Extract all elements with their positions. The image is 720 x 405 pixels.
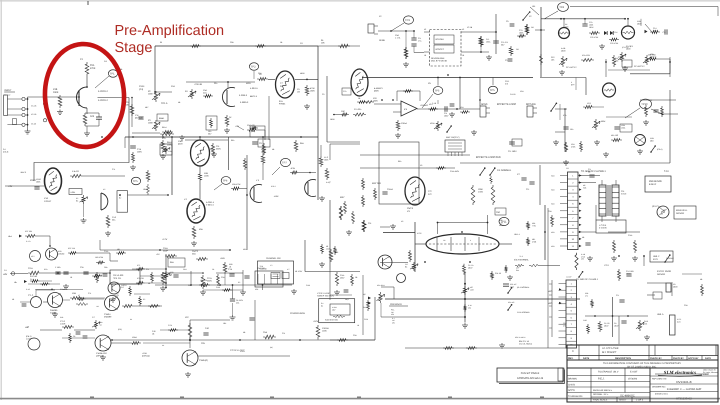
svg-text:X2: X2: [238, 281, 240, 284]
svg-text:BM41: BM41: [159, 117, 165, 120]
svg-text:DV13101-B: DV13101-B: [676, 380, 691, 384]
svg-text:CHANNEL SW: CHANNEL SW: [266, 257, 281, 260]
svg-text:P.E.J.: P.E.J.: [598, 378, 605, 381]
svg-text:07/30/96: 07/30/96: [628, 378, 638, 381]
svg-text:REV.: REV.: [568, 357, 574, 360]
svg-text:C/4A: C/4A: [104, 250, 109, 253]
svg-text:4-OOI1.2: 4-OOI1.2: [98, 99, 109, 102]
svg-text:1M: 1M: [297, 91, 300, 94]
svg-text:4-7: 4-7: [287, 268, 290, 271]
svg-text:V3.1B: V3.1B: [31, 123, 37, 126]
svg-text:((W/C4)): ((W/C4)): [142, 355, 150, 358]
svg-text:SEND: SEND: [379, 39, 385, 42]
svg-text:AMC SW(C/L*): AMC SW(C/L*): [446, 136, 460, 139]
svg-text:8CA26A: 8CA26A: [436, 38, 445, 41]
svg-text:100K: 100K: [519, 32, 524, 35]
svg-text:B4: B4: [76, 199, 78, 202]
svg-text:U2E4: U2E4: [71, 191, 76, 194]
svg-text:+10A: +10A: [142, 352, 147, 355]
svg-text:C5P: C5P: [496, 211, 501, 214]
svg-text:REVERB PAN: REVERB PAN: [431, 57, 445, 60]
svg-text:Pre-Amplification: Pre-Amplification: [115, 23, 225, 39]
svg-text:+12V: +12V: [114, 294, 120, 297]
svg-text:100V: 100V: [444, 115, 449, 118]
svg-text:45A 15P: 45A 15P: [611, 134, 619, 137]
svg-text:(P4.1): (P4.1): [26, 335, 32, 338]
svg-text:C*4: C*4: [88, 292, 91, 295]
svg-text:C/L: C/L: [616, 294, 619, 297]
svg-text:1M: 1M: [531, 26, 534, 29]
svg-text:EFFECTS LOOP PAD: EFFECTS LOOP PAD: [476, 156, 501, 159]
svg-text:4-00I1.5: 4-00I1.5: [250, 87, 258, 90]
svg-text:TP1.5: TP1.5: [161, 102, 168, 105]
svg-text:40A: 40A: [199, 228, 203, 231]
svg-text:VC-1B: VC-1B: [31, 105, 37, 108]
svg-text:C3A04: C3A04: [104, 313, 111, 316]
svg-text:TO J608 OF CH-PWR-1: TO J608 OF CH-PWR-1: [581, 170, 606, 173]
svg-text:C5: C5: [322, 93, 324, 96]
svg-text:B2: B2: [119, 196, 121, 199]
svg-text:CHK'D BY: CHK'D BY: [673, 357, 684, 360]
svg-text:A-00I1.4: A-00I1.4: [206, 201, 215, 204]
svg-text:(MODEL NO.): (MODEL NO.): [655, 393, 668, 396]
svg-text:X50 1A 400*4: X50 1A 400*4: [515, 336, 525, 339]
svg-text:INPUT: INPUT: [4, 89, 12, 92]
svg-text:1B0V: 1B0V: [373, 100, 379, 103]
svg-text:C/4 1B: C/4 1B: [510, 93, 516, 96]
svg-text:4B1: 4B1: [117, 248, 120, 251]
svg-text:TP6: TP6: [223, 180, 228, 183]
svg-text:+8V: +8V: [3, 273, 8, 276]
svg-text:T-10: T-10: [664, 170, 669, 173]
svg-text:C3A04(2): C3A04(2): [199, 359, 208, 362]
svg-text:07A: 07A: [279, 100, 283, 103]
svg-text:U.S.A.: U.S.A.: [703, 373, 709, 376]
svg-text:TP5: TP5: [490, 89, 495, 92]
svg-text:*/C4 C/L: */C4 C/L: [113, 277, 122, 280]
svg-text:BY ST. JAMES AUDIO, INC.: BY ST. JAMES AUDIO, INC.: [627, 365, 657, 368]
svg-text:X5A 45A4: X5A 45A4: [377, 284, 385, 287]
svg-text:UML 2: UML 2: [653, 255, 660, 258]
svg-text:DATE: DATE: [583, 357, 590, 360]
svg-text:SLM electronics: SLM electronics: [664, 370, 697, 376]
svg-text:100K: 100K: [36, 181, 41, 184]
svg-text:X3 1B: X3 1B: [467, 26, 473, 29]
svg-text:4-00I*: 4-00I*: [274, 195, 279, 198]
svg-text:4B 1C0V: 4B 1C0V: [295, 270, 303, 273]
svg-text:P04: P04: [516, 269, 519, 272]
svg-text:THIS INFORMATION CONTAINED OF: THIS INFORMATION CONTAINED OF THIS DRAWI…: [603, 362, 681, 365]
svg-text:2N5089: 2N5089: [50, 309, 58, 312]
svg-text:B4: B4: [321, 304, 323, 307]
svg-text:C8: C8: [73, 335, 75, 338]
svg-text:470: 470: [585, 294, 588, 297]
svg-text:8CNTET: 8CNTET: [436, 48, 445, 51]
svg-text:TP2: TP2: [251, 66, 256, 69]
svg-text:4 A(C: 4 A(C: [326, 181, 331, 184]
svg-text:TP1: TP1: [110, 73, 115, 76]
svg-text:X07 1B4: X07 1B4: [25, 230, 32, 233]
svg-text:8.5E.P: 8.5E.P: [649, 183, 657, 186]
svg-text:FINAL SCALE: FINAL SCALE: [593, 399, 608, 402]
svg-text:CHECK BY: CHECK BY: [650, 357, 662, 360]
svg-text:P04 1B: P04 1B: [495, 272, 502, 275]
svg-text:C/4: C/4: [282, 332, 285, 335]
svg-text:1B41-4: 1B41-4: [514, 233, 520, 236]
svg-text:+84V: +84V: [220, 257, 226, 260]
svg-text:FUN SIT PDALE: FUN SIT PDALE: [521, 372, 540, 375]
svg-text:+8P: +8P: [25, 326, 30, 329]
svg-text:05A4: 05A4: [162, 126, 166, 129]
svg-text:SHEET: SHEET: [619, 399, 627, 402]
svg-text:V1A: V1A: [44, 197, 49, 200]
svg-text:1.5TV: 1.5TV: [26, 338, 32, 341]
svg-text:(C3.2): (C3.2): [3, 151, 9, 154]
svg-text:C/4A: C/4A: [178, 140, 183, 143]
svg-text:4-OOI1.2: 4-OOI1.2: [98, 90, 109, 93]
svg-text:150A: 150A: [486, 41, 491, 44]
svg-text:4B7: 4B7: [145, 106, 148, 109]
svg-text:C5A: C5A: [263, 331, 268, 334]
svg-text:J1 C/3*: J1 C/3*: [566, 276, 572, 279]
svg-text:EXTRY SNGR: EXTRY SNGR: [657, 270, 672, 273]
svg-text:C3A04 A/52: C3A04 A/52: [96, 352, 108, 355]
svg-text:0.5: 0.5: [103, 188, 105, 191]
svg-text:C5/C3: C5/C3: [192, 250, 199, 253]
svg-text:C3: C3: [505, 59, 507, 62]
svg-text:J11: J11: [566, 167, 569, 170]
svg-text:4B0: 4B0: [650, 140, 653, 143]
svg-text:X1B: X1B: [53, 88, 58, 91]
svg-text:4B0V: 4B0V: [374, 90, 380, 93]
svg-text:45A: 45A: [192, 253, 196, 256]
svg-text:(P5.A): (P5.A): [657, 148, 663, 151]
svg-text:0731135-02: 0731135-02: [676, 397, 692, 401]
svg-text:P7B04: P7B04: [279, 103, 286, 106]
svg-text:SC-4890SC: SC-4890SC: [620, 395, 635, 398]
svg-text:B4: B4: [405, 265, 407, 268]
svg-text:450V: 450V: [207, 280, 212, 283]
svg-text:1/4: 1/4: [443, 239, 445, 242]
svg-text:X5A 470K: X5A 470K: [582, 54, 591, 57]
svg-text:450V: 450V: [178, 143, 183, 146]
svg-text:4 C33 B: 4 C33 B: [599, 227, 607, 230]
svg-text:(P/4): (P/4): [118, 328, 122, 331]
svg-text:X71: X71: [137, 264, 140, 267]
svg-text:C/500A: C/500A: [322, 327, 329, 330]
svg-text:2N5089: 2N5089: [58, 252, 64, 255]
svg-text:450V: 450V: [216, 148, 221, 151]
svg-text:100K: 100K: [478, 188, 483, 191]
svg-text:C/L: C/L: [146, 268, 149, 271]
svg-text:C/4A 450V: C/4A 450V: [450, 170, 460, 173]
svg-text:C5*1: C5*1: [648, 99, 652, 102]
svg-text:X2A-4/C: X2A-4/C: [508, 301, 515, 304]
svg-text:470K: 470K: [90, 67, 96, 70]
svg-text:4-00I1.4: 4-00I1.4: [206, 204, 214, 207]
svg-text:C/1A: C/1A: [28, 267, 33, 270]
svg-text:BNI C/L 1A: BNI C/L 1A: [519, 340, 530, 343]
svg-text:C/1: C/1: [4, 269, 7, 272]
svg-text:4: 4: [470, 239, 471, 242]
svg-text:C5A: C5A: [203, 89, 208, 92]
svg-text:450V: 450V: [340, 277, 345, 280]
svg-text:SEND: SEND: [481, 103, 488, 106]
svg-text:UML A: UML A: [657, 313, 664, 316]
svg-text:C/L: C/L: [188, 284, 191, 287]
svg-text:X5B4: X5B4: [132, 336, 137, 339]
svg-text:PRESENCE: PRESENCE: [390, 303, 403, 306]
svg-text:1/4W: 1/4W: [478, 191, 483, 194]
svg-text:100K: 100K: [322, 330, 327, 333]
svg-text:X8B: X8B: [204, 172, 208, 175]
svg-text:APP'D BY: APP'D BY: [688, 357, 699, 360]
svg-text:C/4A: C/4A: [628, 234, 633, 237]
svg-text:+TB/.4B: +TB/.4B: [194, 83, 203, 86]
svg-text:(P/1.C): (P/1.C): [652, 205, 659, 208]
svg-text:EFFECTS LOOP: EFFECTS LOOP: [497, 103, 516, 106]
svg-text:4 B 4: 4 B 4: [271, 185, 275, 188]
svg-text:MATTER: MATTER: [372, 182, 381, 185]
svg-text:C8V: C8V: [201, 342, 206, 345]
svg-text:1B0V: 1B0V: [330, 118, 335, 121]
svg-text:TO J600 OF CH-600-1: TO J600 OF CH-600-1: [576, 278, 599, 281]
svg-text:1/2AX7: 1/2AX7: [44, 200, 52, 203]
svg-text:TP5: TP5: [133, 180, 138, 183]
svg-text:C/4A: C/4A: [163, 247, 168, 250]
svg-text:500K: 500K: [601, 120, 606, 123]
svg-text:DRAWN: DRAWN: [568, 378, 577, 381]
svg-text:A5.2: A5.2: [31, 255, 35, 258]
svg-text:470: 470: [563, 324, 566, 327]
svg-text:+CV: +CV: [235, 125, 240, 128]
svg-text:L*C/3 V LOOP: L*C/3 V LOOP: [317, 292, 331, 295]
svg-text:/C3: /C3: [505, 83, 508, 86]
svg-text:1/4 NORMAL: 1/4 NORMAL: [497, 169, 512, 172]
svg-text:4C/3: 4C/3: [653, 258, 658, 261]
svg-text:4P04: 4P04: [291, 167, 295, 170]
svg-text:05A: 05A: [300, 142, 304, 145]
svg-text:ME7: ME7: [340, 196, 345, 199]
svg-text:VC-1B: VC-1B: [31, 113, 37, 116]
svg-text:4-B0I5.3: 4-B0I5.3: [240, 101, 249, 104]
svg-text:+3V: +3V: [8, 185, 13, 188]
svg-text:X.4 470: X.4 470: [72, 170, 80, 173]
svg-text:APP'D: APP'D: [568, 389, 575, 392]
svg-text:X4: X4: [130, 318, 132, 321]
svg-text:C9 1A 400: C9 1A 400: [113, 274, 124, 277]
svg-text:AT3: AT3: [565, 26, 568, 29]
svg-text:C/L 150V: C/L 150V: [508, 150, 517, 153]
svg-text:X5B 470K: X5B 470K: [232, 183, 241, 186]
svg-text:X5*1: X5*1: [587, 102, 591, 105]
svg-text:TAP USED ON: TAP USED ON: [652, 378, 667, 381]
svg-text:100K: 100K: [148, 122, 153, 125]
svg-text:RETURN: RETURN: [526, 103, 536, 106]
svg-text:C/550A/C: C/550A/C: [666, 257, 674, 260]
svg-text:1/4 A NORMAL: 1/4 A NORMAL: [517, 311, 530, 314]
svg-text:C*3.2: C*3.2: [60, 320, 66, 323]
svg-text:-8b: -8b: [14, 281, 17, 284]
svg-text:C7B 470K: C7B 470K: [590, 36, 599, 39]
svg-text:P5/C3: P5/C3: [407, 207, 414, 210]
svg-text:4B0V: 4B0V: [300, 72, 305, 75]
svg-text:+12V: +12V: [162, 238, 168, 241]
svg-text:DECIMAL .XX ±: DECIMAL .XX ±: [593, 393, 609, 396]
svg-text:1M: 1M: [516, 48, 519, 51]
svg-text:100K: 100K: [324, 159, 329, 162]
svg-text:C*7: C*7: [92, 316, 95, 319]
svg-text:C3 (C: C3 (C: [621, 193, 627, 196]
svg-text:-1BV D: -1BV D: [20, 171, 27, 174]
svg-text:C/L C/L 9A/C4: C/L C/L 9A/C4: [519, 343, 533, 346]
svg-text:C7A: C7A: [228, 268, 233, 271]
svg-text:470K: 470K: [571, 146, 576, 149]
svg-text:C/5A4: C/5A4: [401, 122, 407, 125]
svg-text:77W: 77W: [532, 224, 536, 227]
svg-text:V4: V4: [401, 220, 403, 223]
svg-text:C5A: C5A: [395, 34, 400, 37]
svg-text:P7A 22A: P7A 22A: [354, 108, 362, 111]
svg-text:DRIVER: DRIVER: [676, 212, 685, 215]
svg-text:1/4(C4: 1/4(C4: [121, 284, 126, 287]
svg-text:470K: 470K: [310, 87, 315, 90]
svg-text:BBT1.5: BBT1.5: [250, 95, 258, 98]
svg-text:X2: X2: [143, 298, 145, 301]
svg-text:100V: 100V: [137, 151, 142, 154]
svg-text:4*C/5: 4*C/5: [417, 232, 422, 235]
svg-text:05: 05: [160, 41, 162, 44]
svg-text:(C/4: (C/4: [677, 320, 680, 323]
svg-text:C/7A: C/7A: [207, 277, 212, 280]
svg-text:X07 22A: X07 22A: [68, 247, 76, 250]
svg-text:(W): (W): [270, 346, 273, 349]
svg-text:1K5: 1K5: [90, 115, 95, 118]
svg-text:MAIN VELL: MAIN VELL: [676, 209, 688, 212]
svg-text:1 1AA: 1 1AA: [55, 266, 61, 269]
svg-text:DRAWER NO.: DRAWER NO.: [652, 386, 666, 389]
svg-text:1 17A: 1 17A: [395, 37, 401, 40]
svg-text:3/4 A NORMAL: 3/4 A NORMAL: [514, 259, 530, 262]
svg-text:X70 C/B: X70 C/B: [137, 277, 144, 280]
svg-text:C9: C9: [506, 20, 508, 23]
svg-text:(P4): (P4): [139, 88, 143, 91]
svg-text:DESCRIPTION: DESCRIPTION: [615, 357, 631, 360]
svg-text:05A: 05A: [170, 261, 174, 264]
svg-text:C/3A4: C/3A4: [240, 350, 245, 353]
svg-text:C-1 D: C-1 D: [26, 240, 31, 243]
svg-text:TOLERANCES: TOLERANCES: [568, 395, 583, 398]
svg-text:Stage: Stage: [115, 40, 153, 56]
svg-text:MDL 8 FO 2B 4B: MDL 8 FO 2B 4B: [431, 60, 447, 63]
svg-text:TP5: TP5: [435, 90, 440, 93]
svg-text:100K: 100K: [148, 93, 153, 96]
svg-text:4B0V: 4B0V: [561, 50, 566, 53]
svg-text:TP7: TP7: [282, 162, 287, 165]
svg-text:-8b4: -8b4: [8, 235, 12, 238]
svg-text:4B0V: 4B0V: [673, 286, 678, 289]
svg-text:P2A: P2A: [90, 64, 95, 67]
svg-text:105: 105: [532, 5, 535, 8]
svg-text:X5: X5: [420, 164, 422, 167]
svg-text:450P: 450P: [163, 250, 168, 253]
svg-text:4B0V: 4B0V: [626, 48, 631, 51]
svg-text:4-AB/AT3: 4-AB/AT3: [374, 87, 383, 90]
svg-text:C/L 1PP A TWR: C/L 1PP A TWR: [602, 347, 619, 350]
svg-text:S134/AMP. C — GUITAR AMP: S134/AMP. C — GUITAR AMP: [667, 388, 702, 391]
svg-text:PC-#1/C3 2: PC-#1/C3 2: [566, 66, 577, 69]
svg-text:X7: X7: [78, 294, 80, 297]
svg-text:450V: 450V: [246, 82, 251, 85]
svg-text:1B4: 1B4: [223, 322, 226, 325]
svg-text:TOLERANCE UN.V: TOLERANCE UN.V: [598, 371, 619, 374]
svg-text:100K: 100K: [53, 91, 59, 94]
svg-text:1B0V: 1B0V: [310, 90, 316, 93]
svg-text:L C/3 III: L C/3 III: [599, 224, 607, 227]
svg-text:X5B: X5B: [72, 292, 76, 295]
svg-text:BLY PENOPT: BLY PENOPT: [602, 351, 617, 354]
svg-text:(/4 A NORMAL: (/4 A NORMAL: [517, 286, 529, 289]
svg-text:DRIVER: DRIVER: [657, 273, 666, 276]
svg-text:CHK'D: CHK'D: [568, 384, 575, 387]
svg-text:PC-#2/C3 2: PC-#2/C3 2: [634, 65, 645, 68]
svg-text:C7B 470K: C7B 470K: [610, 42, 619, 45]
svg-text:C7A2: C7A2: [613, 31, 618, 34]
svg-text:P2A4: P2A4: [139, 85, 145, 88]
svg-text:E.A.BT: E.A.BT: [630, 371, 638, 374]
svg-text:4P5A: 4P5A: [430, 122, 435, 125]
svg-text:2 OF 4: 2 OF 4: [636, 399, 644, 402]
svg-text:*.1.4: *.1.4: [519, 255, 523, 258]
svg-text:4B4*: 4B4*: [332, 308, 336, 311]
svg-text:4-00I5.3: 4-00I5.3: [239, 94, 248, 97]
svg-text:1.50R: 1.50R: [60, 323, 66, 326]
svg-text:4B0V: 4B0V: [637, 23, 642, 26]
svg-text:C7A: C7A: [137, 148, 142, 151]
svg-text:+52V: +52V: [313, 320, 319, 323]
svg-text:10K: 10K: [321, 42, 325, 45]
svg-text:100K: 100K: [261, 151, 266, 154]
svg-text:C*1.2: C*1.2: [28, 294, 34, 297]
svg-text:C/4A4: C/4A4: [387, 188, 394, 191]
svg-text:TP4: TP4: [559, 6, 564, 9]
svg-text:TP3: TP3: [405, 19, 410, 22]
svg-text:ANGULAR MACH ±: ANGULAR MACH ±: [593, 389, 613, 392]
svg-text:DATE: DATE: [705, 357, 711, 360]
svg-text:2N5089: 2N5089: [104, 316, 112, 319]
svg-text:C5A 150: C5A 150: [257, 267, 266, 270]
svg-text:1KB 470A: 1KB 470A: [95, 256, 104, 259]
svg-text:4B7 50V: 4B7 50V: [135, 117, 143, 120]
svg-text:POWERDRAW: POWERDRAW: [290, 312, 306, 315]
svg-text:-OOI5A2: -OOI5A2: [420, 104, 429, 107]
svg-text:4B(4: 4B(4: [345, 298, 349, 301]
svg-text:100K: 100K: [204, 175, 209, 178]
svg-text:SUB SECTION: SUB SECTION: [325, 319, 338, 322]
svg-text:TP10: TP10: [641, 103, 648, 106]
svg-text:1 3: 1 3: [270, 264, 272, 267]
svg-text:X1B 1B4: X1B 1B4: [30, 275, 37, 278]
svg-text:C*4: C*4: [112, 168, 115, 171]
svg-text:C/PPDATE APCHA4 43: C/PPDATE APCHA4 43: [517, 377, 544, 380]
